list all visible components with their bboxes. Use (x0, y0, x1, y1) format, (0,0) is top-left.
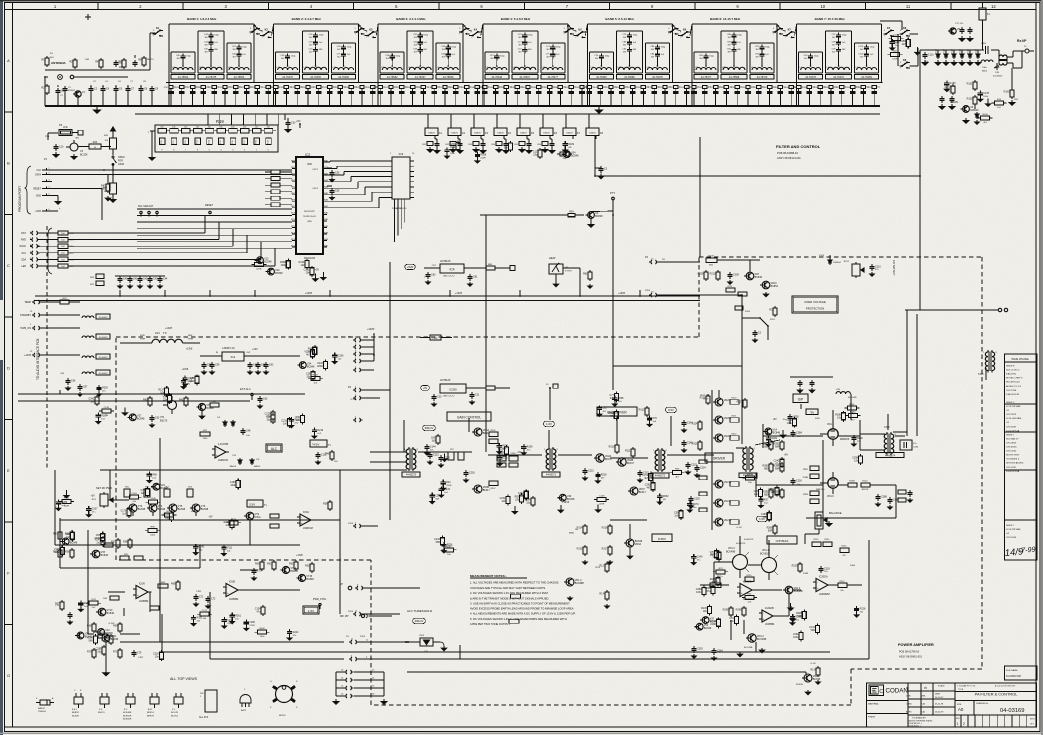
svg-text:P200: P200 (360, 636, 366, 638)
svg-text:ANTENNA: ANTENNA (51, 61, 66, 65)
svg-text:LM358M: LM358M (229, 598, 238, 601)
left analog bus wires (60, 519, 340, 521)
svg-text:44-78466: 44-78466 (338, 76, 349, 79)
svg-text:T205: T205 (978, 373, 984, 376)
svg-text:R63: R63 (305, 565, 310, 568)
svg-text:TO AUDIO INTERFACE PCB: TO AUDIO INTERFACE PCB (36, 339, 40, 380)
band 4 section 3 inductor 44-78477 (541, 42, 565, 44)
svg-text:Rx I/P: Rx I/P (1017, 39, 1027, 43)
svg-text:06-02-99: 06-02-99 (935, 712, 944, 714)
connector P200 group top (355, 338, 356, 342)
svg-text:C1? 47u: C1? 47u (955, 23, 964, 25)
svg-text:UNLESS OTHERWISE STATED: UNLESS OTHERWISE STATED (908, 719, 933, 722)
bias resistors between VD13 VD14 (745, 577, 754, 581)
pre-driver transistor VD203 (630, 487, 638, 495)
svg-text:4k7: 4k7 (647, 486, 652, 489)
svg-text:BC848: BC848 (178, 508, 186, 511)
resistor C181 (130, 495, 139, 499)
svg-text:10k: 10k (208, 127, 211, 129)
svg-text:BCV49: BCV49 (171, 712, 179, 714)
svg-text:P12: P12 (185, 140, 187, 143)
relay bridge wire (469, 35, 470, 37)
transistor VT15 BC848 (298, 574, 305, 581)
cap C10 (55, 144, 57, 147)
svg-text:C278: C278 (983, 92, 989, 95)
notes boxed 1.4V first (511, 594, 521, 598)
svg-text:R268: R268 (480, 154, 486, 157)
svg-text:C81: C81 (473, 276, 478, 279)
svg-text:DB: DB (575, 529, 579, 531)
IC3 bottom fanout wires (394, 199, 396, 242)
svg-text:C/R 25097: C/R 25097 (1006, 426, 1017, 428)
file name box (1005, 666, 1038, 680)
svg-text:V248: V248 (151, 498, 157, 500)
svg-text:V202: V202 (419, 635, 425, 637)
svg-text:-: - (216, 448, 217, 452)
svg-text:R310: R310 (609, 446, 615, 449)
program port +5V tick (52, 210, 58, 212)
svg-text:R219: R219 (317, 429, 323, 432)
svg-text:R8-C8970-001: R8-C8970-001 (1006, 382, 1021, 384)
inductor 44-78367 (409, 67, 431, 70)
svg-text:+13V8: +13V8 (455, 292, 463, 295)
resistor C182 (311, 266, 313, 268)
svg-text:TITLE: TITLE (958, 689, 964, 691)
inductor 44-78466 (334, 68, 354, 71)
IC2 left pin series resistors (271, 170, 280, 174)
input cap C2 (90, 86, 92, 89)
svg-text:-7-99: -7-99 (1018, 545, 1036, 555)
svg-text:OSC1: OSC1 (312, 169, 319, 171)
svg-text:45-40063: 45-40063 (99, 357, 109, 359)
svg-text:+: + (227, 591, 229, 595)
DRIVER label box (705, 453, 733, 462)
svg-text:BC848: BC848 (206, 407, 214, 410)
svg-text:ASSY 08-05415-001: ASSY 08-05415-001 (899, 656, 922, 659)
svg-text:1N825: 1N825 (497, 132, 504, 134)
vertical feeders amplifier chain (403, 420, 405, 452)
svg-text:RESET: RESET (33, 189, 41, 191)
svg-text:+13V8: +13V8 (562, 502, 569, 504)
svg-text:R2.2: R2.2 (599, 565, 605, 568)
ALC label box (266, 444, 282, 452)
svg-text:ISSUE CHANGE: ISSUE CHANGE (1011, 358, 1029, 361)
balance trimmer (815, 512, 823, 529)
decoupling cap C34 (600, 166, 602, 169)
capacitor R219 (313, 427, 315, 430)
svg-text:220R: 220R (803, 573, 809, 575)
resistor R45 vertical (112, 128, 114, 131)
svg-text:1k0: 1k0 (301, 264, 306, 267)
IC2 pins left (292, 161, 296, 163)
svg-text:1N4004: 1N4004 (833, 262, 841, 264)
svg-text:C1R2: C1R2 (196, 591, 202, 593)
input cap C9 (151, 86, 153, 89)
svg-text:45-40063: 45-40063 (99, 317, 109, 319)
resistor C298 (860, 454, 862, 456)
scan edge left (0, 0, 3, 735)
bypass cap C33 (287, 120, 289, 123)
svg-text:+5V: +5V (91, 495, 96, 497)
resistor C170 (128, 507, 130, 509)
svg-text:1 PLACE DEC. ±: 1 PLACE DEC. ± (908, 724, 921, 727)
PA bottom transistor VD2.0 (804, 674, 812, 682)
svg-text:33p: 33p (533, 153, 538, 156)
svg-text:BAND 2: 2.4-3.7 MHz: BAND 2: 2.4-3.7 MHz (292, 17, 322, 21)
svg-text:BF017: BF017 (639, 491, 647, 494)
svg-text:DRAWING No.: DRAWING No. (976, 702, 989, 705)
svg-text:IC1: IC1 (231, 355, 236, 359)
PLL IC3 (392, 157, 410, 199)
band 6 trimmer caps row (692, 85, 696, 88)
gain stage caps (465, 470, 467, 473)
svg-text:TEMP: TEMP (24, 301, 31, 304)
+5V star point box (806, 409, 818, 415)
attenuator resistor R1 (46, 56, 48, 58)
PA output vertical pair (906, 310, 908, 436)
svg-text:10: 10 (820, 4, 825, 9)
svg-text:BC848: BC848 (72, 715, 79, 717)
capacitor C293 (431, 493, 433, 496)
svg-text:+10VR: +10VR (367, 328, 375, 331)
3.5V Tx label (247, 500, 263, 507)
svg-text:44-80270: 44-80270 (406, 474, 417, 477)
svg-text:6B0: 6B0 (764, 468, 769, 471)
svg-text:R109: R109 (568, 143, 574, 146)
svg-text:4. ALL MEASUREMENTS ARE MADE: 4. ALL MEASUREMENTS ARE MADE WITH A DC S… (470, 612, 576, 616)
relay coil K2 (448, 128, 461, 136)
registration mark top-left (85, 16, 91, 18)
svg-text:56R: 56R (768, 529, 773, 532)
svg-text:R2B7: R2B7 (803, 469, 809, 471)
svg-text:*4.5V: *4.5V (312, 442, 319, 446)
resistor V221 (800, 630, 802, 632)
capacitor R230 (791, 614, 793, 617)
PTT resistor R54 (566, 214, 568, 216)
svg-text:+1.8V: +1.8V (736, 527, 742, 529)
svg-text:4k7: 4k7 (105, 640, 110, 643)
svg-text:BAND 4: 5.4-6.5 MHz: BAND 4: 5.4-6.5 MHz (501, 17, 531, 21)
svg-text:DRIVER: DRIVER (713, 457, 726, 461)
svg-text:10k: 10k (160, 127, 163, 129)
svg-text:BF070: BF070 (147, 59, 154, 61)
bias transistor VD204 BC849 (626, 539, 634, 547)
PTT transistor U4 BC848 (588, 212, 595, 219)
band 7 trimmer caps row (796, 85, 800, 88)
output caps to ground (877, 494, 879, 497)
driver feed resistors (699, 420, 701, 422)
svg-text:BCV61B: BCV61B (760, 552, 770, 555)
IC3 pins (388, 160, 392, 162)
PIN diode VD8B BF017 lower (474, 485, 482, 493)
svg-text:C2B6: C2B6 (881, 496, 888, 499)
scan edge top (0, 0, 1043, 2)
svg-text:400mV: 400mV (415, 619, 424, 623)
resistor R232 (98, 634, 107, 638)
svg-text:© CODAN PTY. LTD.: © CODAN PTY. LTD. (957, 685, 976, 688)
R19 ground (152, 130, 155, 132)
svg-text:IC200: IC200 (449, 388, 457, 392)
svg-text:44-78489: 44-78489 (861, 76, 872, 79)
capacitor V186 (245, 620, 247, 623)
PIN diode VD8A BF017 upper (474, 428, 482, 436)
PA rail junction (612, 337, 614, 390)
resistor C131 (746, 476, 755, 480)
transistor V145 (257, 257, 264, 264)
svg-text:BZX84: BZX84 (68, 90, 75, 92)
limiter diode D106 (977, 52, 979, 54)
svg-text:10n: 10n (797, 436, 800, 438)
inductor 44-78582 (382, 68, 402, 71)
gate caps (792, 430, 794, 433)
bottom signal wire long (162, 651, 830, 653)
svg-text:78-2B5Y3-001: 78-2B5Y3-001 (303, 216, 317, 218)
svg-text:C102: C102 (858, 53, 864, 55)
relay bridge wire (364, 35, 365, 37)
package outline SOT23 BFR92/BC848 (74, 697, 83, 704)
svg-text:C235: C235 (694, 498, 700, 501)
F201 bypass parts (754, 330, 756, 333)
svg-text:R2.4: R2.4 (599, 593, 605, 596)
package outline TO92 A202 (240, 695, 251, 704)
capacitor C278 (979, 91, 981, 94)
svg-text:KJA: KJA (921, 711, 925, 714)
svg-text:V147: V147 (91, 599, 97, 601)
svg-text:C/R 25974: C/R 25974 (1006, 414, 1017, 416)
resistor C293 (652, 481, 654, 483)
svg-text:IC4: IC4 (450, 268, 455, 272)
svg-text:ASSY 08-05414-001: ASSY 08-05414-001 (777, 156, 801, 160)
resistor C20 (272, 413, 274, 415)
svg-text:R208: R208 (708, 256, 714, 258)
band 6 section 2 inductor 44-78588 (721, 30, 747, 32)
band 1 section 3 inductor 44-78503 (227, 42, 251, 44)
svg-text:+13V8: +13V8 (305, 292, 313, 295)
svg-text:O/P BIAS: O/P BIAS (776, 539, 789, 543)
input cap C7 (127, 86, 129, 89)
capacitor R231 (290, 417, 292, 420)
svg-text:44-78588: 44-78588 (729, 76, 740, 79)
transistor R111 (129, 414, 136, 421)
diodes D10 D11 (239, 458, 241, 460)
svg-text:BC848B: BC848B (794, 590, 803, 593)
capacitor R252 (659, 493, 661, 496)
op-amp IC6/A LM358M (136, 585, 148, 598)
svg-text:AVOID EXCESS PROBE EARTH LEAD: AVOID EXCESS PROBE EARTH LEAD AROUND PRO… (470, 607, 574, 611)
svg-text:B E C: B E C (72, 709, 78, 711)
inductor 44-78479 (752, 68, 772, 71)
zener ground hook (440, 642, 444, 646)
resistor C143 (718, 617, 720, 619)
svg-text:PROTECTION: PROTECTION (806, 307, 824, 311)
driver lower transistors VD210-212 (715, 480, 723, 488)
svg-text:C72: C72 (211, 598, 216, 601)
svg-text:R316: R316 (602, 527, 608, 530)
wire +10V rail (262, 355, 300, 357)
resistor R78 (716, 570, 725, 574)
svg-text:PWR_CTRL: PWR_CTRL (313, 598, 327, 601)
series resistor R17 1k0 (58, 264, 68, 268)
resistor C162 (525, 489, 527, 491)
svg-text:V296: V296 (450, 149, 456, 152)
svg-text:220R: 220R (599, 504, 605, 506)
bias op-amp IC202B lower (762, 610, 773, 622)
PA output connector (998, 308, 1001, 311)
emitter resistors row (124, 489, 130, 497)
svg-text:P11: P11 (173, 140, 175, 143)
IC2 pins right (323, 161, 327, 163)
svg-text:10k: 10k (219, 127, 222, 129)
transistor VT14 BFR92 (282, 566, 289, 573)
choke L28 (82, 372, 94, 374)
svg-text:R252: R252 (663, 495, 669, 498)
svg-text:SCL: SCL (22, 253, 27, 255)
svg-text:C43: C43 (153, 278, 158, 281)
svg-text:RESET: RESET (205, 204, 214, 207)
bus to R19 vertical drops (207, 114, 209, 125)
svg-text:OUT: OUT (246, 352, 251, 354)
connector P200 row 526 (355, 524, 356, 528)
svg-text:R301: R301 (491, 430, 497, 432)
band 4 trimmer caps row (483, 85, 487, 88)
svg-text:R37: R37 (764, 498, 769, 501)
capacitor R42 (442, 480, 444, 483)
transistor C299 (98, 629, 105, 636)
choke L26 (82, 336, 94, 338)
audio interface bracket (48, 228, 52, 274)
svg-text:44-78588: 44-78588 (624, 76, 635, 79)
program port pin 3 (42, 181, 52, 183)
main supply rail +13V8 (35, 295, 700, 297)
inductor 44-78348 (487, 68, 507, 71)
svg-text:PROGRAM PORT: PROGRAM PORT (18, 186, 22, 212)
svg-text:BS170: BS170 (98, 712, 105, 714)
svg-text:-: - (817, 581, 818, 585)
svg-text:C71: C71 (199, 596, 204, 599)
svg-text:MRF200: MRF200 (840, 438, 850, 441)
relay K7 contact right of band 7 (885, 33, 887, 35)
interface filter caps row (119, 276, 121, 279)
resistor R164 (95, 634, 97, 636)
svg-text:R48: R48 (325, 453, 330, 456)
svg-text:C230: C230 (469, 472, 475, 475)
limiter diode D104 (961, 52, 963, 54)
capacitor R115 (498, 443, 500, 446)
svg-text:FWD: FWD (21, 240, 27, 242)
resistor R220h (486, 386, 495, 390)
svg-text:F200: F200 (745, 311, 751, 313)
svg-text:BC848: BC848 (111, 638, 119, 641)
relay bridge wire (678, 35, 679, 37)
codan logo box (869, 685, 884, 696)
solid box around PA lower (460, 658, 869, 660)
svg-text:44-78478: 44-78478 (805, 76, 816, 79)
svg-text:1N825: 1N825 (474, 132, 481, 134)
svg-text:I/P: I/P (340, 583, 343, 586)
svg-text:BC848: BC848 (85, 636, 93, 639)
svg-text:C80: C80 (431, 274, 436, 277)
svg-text:1.5V: 1.5V (308, 609, 314, 613)
svg-text:SDA: SDA (21, 258, 26, 261)
capacitor C144 (426, 444, 428, 447)
svg-text:1N4004: 1N4004 (38, 711, 46, 713)
svg-text:44-78566: 44-78566 (443, 76, 454, 79)
svg-text:C: C (879, 689, 883, 695)
resistor C273 (650, 472, 652, 474)
svg-text:B C: B C (124, 709, 128, 711)
svg-text:C57: C57 (83, 386, 88, 389)
inductor 44-78566 (438, 68, 458, 71)
svg-text:33p: 33p (526, 501, 531, 504)
capacitor R228 (856, 606, 858, 609)
svg-text:R58: R58 (323, 503, 328, 506)
resistor C131 (817, 624, 819, 626)
svg-text:1R: 1R (662, 259, 665, 261)
svg-text:P17: P17 (244, 140, 246, 143)
resistor R108 (981, 116, 990, 120)
ground symbol (322, 272, 324, 275)
resistor R286 (774, 524, 776, 526)
package outline RF202 power FET (276, 686, 293, 703)
svg-text:-: - (763, 612, 764, 616)
svg-text:1N825: 1N825 (451, 132, 458, 134)
svg-text:44-78503: 44-78503 (234, 76, 245, 79)
resistor V248 (149, 500, 158, 504)
svg-text:+5VR: +5VR (35, 211, 41, 213)
misc junction dots (485, 267, 487, 269)
cap C152 (317, 452, 319, 455)
svg-text:2mF: 2mF (63, 126, 68, 129)
resistor R170 (62, 499, 71, 503)
svg-text:C231: C231 (588, 470, 594, 473)
svg-text:C263: C263 (697, 648, 703, 651)
bias sense transistor VD1.4b (785, 586, 793, 594)
svg-text:R211: R211 (728, 286, 734, 288)
svg-text:R42: R42 (446, 481, 451, 484)
transistor VT9 BC848 (246, 512, 254, 520)
svg-text:+5VR: +5VR (407, 265, 414, 269)
svg-text:BC850R: BC850R (123, 715, 132, 717)
relay contact K4 at band boundary 3 (472, 35, 474, 37)
svg-text:PCB 08-03088-04: PCB 08-03088-04 (777, 151, 798, 155)
svg-text:R182: R182 (259, 628, 265, 630)
svg-text:-: - (741, 586, 742, 590)
transistor C280 (696, 623, 703, 630)
svg-text:C10: C10 (59, 146, 64, 149)
svg-text:C20: C20 (503, 457, 508, 460)
capacitor C149 (693, 554, 695, 557)
svg-text:+: + (763, 617, 765, 621)
capacitor R281 (767, 436, 769, 439)
relay row feed wire (428, 113, 589, 115)
svg-text:BC856R: BC856R (123, 719, 132, 721)
resistor R124 (306, 259, 308, 261)
svg-text:C196: C196 (338, 354, 344, 357)
svg-text:BCV49B: BCV49B (726, 550, 736, 553)
resistor C26 (312, 370, 314, 372)
filter caps C56 C57 (67, 378, 69, 381)
svg-text:C59: C59 (215, 364, 220, 367)
svg-text:R70: R70 (653, 417, 658, 420)
svg-text:C141: C141 (199, 546, 205, 549)
DB BIAS resistors (584, 524, 586, 526)
svg-text:C36: C36 (335, 190, 340, 193)
svg-text:R281: R281 (771, 437, 777, 440)
svg-text:4-8,IC5/B: 4-8,IC5/B (218, 443, 229, 446)
resistor R47 100k (200, 432, 210, 436)
resistor C48 (760, 488, 762, 490)
resistor R18 (60, 300, 69, 304)
